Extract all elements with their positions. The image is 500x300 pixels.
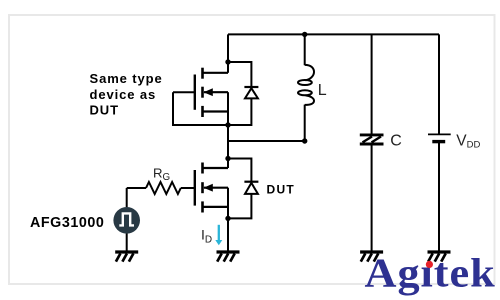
ground (DUT source) [217,252,240,262]
wire capacitor to ground [371,145,373,250]
wire diode D2 bottom branch [228,194,251,219]
wire capacitor branch top [371,34,373,133]
wire gate lead upper device [173,91,195,93]
svg-text:RG: RG [153,166,170,183]
wire drain drop upper device [227,34,229,72]
transistor Q1 (same type device as DUT) [195,68,228,117]
wire DUT source to ground [227,218,229,250]
capacitor C [360,135,384,144]
wire body-source vertical upper device [227,92,229,125]
node: inductor bottom junction [302,138,307,143]
svg-text:L: L [318,82,327,99]
wire diode D2 top branch [228,159,251,182]
wire battery branch top [438,34,440,134]
wire DUT body-source vertical [227,188,229,219]
node: upper device source junction [225,122,230,127]
wire inductor branch [228,140,305,142]
svg-text:ID: ID [201,226,212,245]
wire DUT drain connection [227,159,229,169]
diode D2 (DUT body diode) [244,182,258,194]
wire gate-source tie loop [173,92,228,125]
svg-text:device as: device as [90,87,157,102]
node: DUT drain junction [225,156,230,161]
wire AFG riser [126,188,128,207]
wire AFG to ground [126,233,128,250]
diode D1 (upper freewheeling diode) [244,87,258,98]
wire gate drive horizontal [127,187,146,189]
svg-text:Agıtek: Agıtek [365,251,496,296]
inductor L coil [298,65,314,105]
wire top rail [228,33,439,35]
logo red dot [426,261,433,268]
current arrow ID [215,225,222,246]
svg-text:AFG31000: AFG31000 [30,215,104,231]
ground (capacitor C) [360,252,383,262]
battery VDD [428,134,451,141]
wire battery to ground [438,142,440,251]
svg-text:VDD: VDD [456,132,480,150]
node: diode D1 anode junction [225,59,230,64]
resistor RG [146,182,181,194]
wire switch node vertical [227,125,229,168]
node: inductor top junction [302,32,307,37]
pulse glyph [119,213,134,225]
transistor Q2 DUT [195,163,228,213]
wire inductor top lead [304,34,306,65]
wire inductor bottom lead [304,105,306,141]
wire diode D1 top branch [228,62,251,86]
svg-text:C: C [390,132,402,149]
ground (battery VDD) [428,252,451,262]
wire resistor to gate [181,187,195,189]
svg-text:Same type: Same type [90,71,163,86]
ground (AFG31000) [115,252,138,262]
node: DUT source junction [225,216,230,221]
svg-text:DUT: DUT [90,103,119,118]
svg-text:DUT: DUT [267,183,296,197]
pulse source U1 (AFG output circle) [113,207,140,234]
wire diode D1 bottom branch [228,98,251,125]
label: Same type device as DUT [90,71,163,117]
